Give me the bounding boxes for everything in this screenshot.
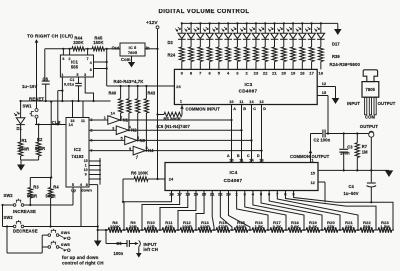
- buffer N3 of IC6 7407: [125, 136, 137, 145]
- wire LED supply rail: [182, 22, 338, 24]
- svg-text:9: 9: [181, 71, 184, 76]
- resistor R24 560R: [179, 47, 184, 62]
- svg-text:10: 10: [229, 158, 233, 162]
- svg-text:7805: 7805: [366, 87, 376, 92]
- svg-text:C4: C4: [349, 184, 355, 189]
- IC4 pin12 stub: [318, 181, 325, 183]
- wire jack sleeve down: [370, 137, 372, 182]
- wire R44-R45: [85, 48, 92, 50]
- resistor R34 560R: [272, 47, 277, 62]
- svg-text:100R: 100R: [182, 224, 192, 229]
- svg-text:11: 11: [81, 119, 85, 123]
- svg-text:7: 7: [199, 71, 202, 76]
- svg-text:C: C: [253, 107, 256, 111]
- LED D8: [236, 22, 238, 24]
- IC3 pin 1 common input stub: [181, 105, 183, 115]
- arrow to right channel clear: [35, 39, 39, 42]
- wire IC4 pin 5 to ladder node: [261, 191, 322, 231]
- svg-text:13: 13: [259, 158, 263, 162]
- wire 555 top rail: [45, 48, 72, 50]
- svg-text:20: 20: [281, 71, 286, 76]
- resistor R20 15K: [322, 229, 324, 231]
- svg-text:330K: 330K: [73, 40, 83, 45]
- svg-text:10: 10: [229, 100, 233, 104]
- svg-text:COMMON INPUT: COMMON INPUT: [186, 107, 221, 112]
- LED D17: [320, 22, 322, 24]
- svg-text:TO RIGHT CH (CLR): TO RIGHT CH (CLR): [27, 33, 73, 38]
- svg-text:42R: 42R: [165, 224, 173, 229]
- resistor R41 4,7K: [128, 85, 130, 87]
- svg-text:13: 13: [259, 100, 263, 104]
- svg-text:OUTPUT: OUTPUT: [312, 154, 330, 159]
- svg-text:22: 22: [263, 71, 268, 76]
- svg-text:CD4067: CD4067: [224, 178, 243, 183]
- svg-text:control of right CH: control of right CH: [62, 261, 104, 266]
- svg-text:100K: 100K: [110, 224, 120, 229]
- resistor R31 560R: [244, 47, 249, 62]
- buffer N4 of IC6 7407: [133, 146, 145, 155]
- svg-text:COMMON: COMMON: [290, 154, 310, 159]
- svg-text:R1: R1: [22, 138, 28, 143]
- wire IC4 pin 16 to ladder node: [124, 191, 172, 231]
- svg-text:8,2K: 8,2K: [309, 224, 318, 229]
- svg-text:12R: 12R: [147, 224, 155, 229]
- svg-text:OUTPUT: OUTPUT: [360, 124, 379, 129]
- svg-text:14: 14: [249, 158, 254, 162]
- wire 555 pin6 drop: [62, 49, 64, 56]
- svg-text:1u~50V: 1u~50V: [344, 191, 359, 196]
- LED D10: [255, 22, 257, 24]
- svg-text:CD4067: CD4067: [239, 89, 258, 94]
- wire C2 to output jack: [326, 133, 369, 135]
- wire bus A vertical: [231, 105, 233, 163]
- wire bus D vertical: [261, 105, 263, 163]
- counter IC2 74193 box: [66, 118, 89, 188]
- svg-text:D17: D17: [332, 41, 340, 46]
- svg-text:SW2: SW2: [4, 193, 14, 198]
- wire IC4 pin 23 to ladder node: [228, 191, 250, 231]
- switch SW5: [48, 246, 51, 249]
- svg-text:up: up: [71, 187, 77, 192]
- svg-text:1M: 1M: [362, 149, 368, 154]
- svg-text:15: 15: [84, 159, 88, 163]
- wire bus D: [146, 150, 262, 152]
- ground LED rail: [337, 23, 339, 29]
- svg-text:SW4: SW4: [61, 230, 71, 235]
- svg-text:24: 24: [176, 84, 181, 89]
- svg-text:1: 1: [104, 116, 106, 120]
- LED D9: [246, 22, 248, 24]
- LED D7: [227, 22, 229, 24]
- wire IC4 pin 19 to ladder node: [178, 191, 196, 231]
- svg-text:R4: R4: [53, 184, 59, 189]
- svg-text:R2: R2: [37, 137, 43, 142]
- wire R45 to IC5 Out: [105, 48, 120, 50]
- svg-text:D1: D1: [17, 126, 23, 131]
- wire IC4 pin 4 to ladder node: [253, 191, 304, 231]
- svg-text:RESET: RESET: [29, 97, 44, 102]
- LED D2: [181, 22, 183, 24]
- wire IC4 pin 6 to ladder node: [269, 191, 340, 231]
- resistor R11 42R: [160, 229, 162, 231]
- svg-text:3: 3: [84, 73, 86, 77]
- svg-text:D: D: [263, 107, 266, 111]
- regulator 7805 TO-220 package drawing: [363, 70, 377, 82]
- resistor R21 33K: [340, 229, 342, 231]
- resistor R23 1,5M: [376, 229, 378, 231]
- svg-text:COM: COM: [365, 115, 375, 120]
- resistor R36 560R: [291, 47, 296, 62]
- svg-text:6: 6: [62, 57, 64, 61]
- LED D13: [283, 22, 285, 24]
- svg-text:14: 14: [111, 112, 116, 116]
- svg-text:OUTPUT: OUTPUT: [378, 101, 396, 106]
- wire IC4 pin 22 to ladder node: [220, 191, 232, 231]
- svg-text:IC2: IC2: [74, 147, 81, 152]
- svg-text:for up and down: for up and down: [62, 255, 99, 260]
- label COMMON INPUT with arrow: [180, 106, 184, 109]
- jack INPUT left CH: [135, 242, 139, 245]
- resistor R10 12R: [142, 229, 144, 231]
- svg-text:In: In: [146, 45, 150, 50]
- regulator IC5 7805 box: [120, 43, 145, 56]
- svg-text:R24-R39=5600: R24-R39=5600: [330, 62, 361, 67]
- LED D14: [292, 22, 294, 24]
- LED D5: [209, 22, 211, 24]
- wire R3 R4 top bracket: [30, 177, 50, 179]
- svg-text:DECREASE: DECREASE: [13, 229, 38, 234]
- svg-text:IC4: IC4: [229, 170, 237, 175]
- svg-text:12: 12: [311, 181, 315, 185]
- wire IC4 pin 2 to ladder node: [237, 191, 268, 231]
- svg-text:R43: R43: [148, 90, 156, 95]
- svg-text:74193: 74193: [71, 154, 84, 159]
- wire bus B vertical: [241, 105, 243, 163]
- resistor R14 470R: [214, 229, 216, 231]
- svg-text:19: 19: [291, 71, 296, 76]
- LED D4: [199, 22, 201, 24]
- svg-text:15K: 15K: [327, 224, 335, 229]
- wire IC4 pin 17 to ladder node: [142, 191, 180, 231]
- wire horizontal rail y101: [21, 100, 111, 102]
- wire input riser to C5: [105, 230, 107, 244]
- svg-text:DIGITAL VOLUME CONTROL: DIGITAL VOLUME CONTROL: [159, 9, 250, 15]
- svg-text:1,5K: 1,5K: [255, 224, 264, 229]
- IC4 pin1 wire to C2: [310, 134, 312, 163]
- resistor R35 560R: [281, 47, 286, 62]
- resistor R30 560R: [235, 47, 240, 62]
- svg-text:SW1: SW1: [23, 103, 33, 108]
- svg-text:R24: R24: [168, 53, 176, 58]
- timer IC1 555 box: [60, 55, 93, 77]
- wire 555 pin7 drop: [87, 49, 89, 56]
- resistor R40 4,7K: [120, 85, 122, 87]
- svg-text:R7: R7: [362, 144, 368, 149]
- wire IC2 pin16 pin11 up to rail: [72, 101, 74, 118]
- svg-text:D2: D2: [168, 40, 174, 45]
- svg-text:14: 14: [69, 123, 74, 127]
- wire +5V rail to IC3 pin 24: [107, 85, 175, 87]
- resistor R43 4,7K: [145, 85, 147, 87]
- svg-text:56K: 56K: [363, 224, 371, 229]
- svg-text:3,3K: 3,3K: [273, 224, 282, 229]
- resistor R26 560R: [198, 47, 203, 62]
- svg-text:C2 100n: C2 100n: [314, 137, 331, 142]
- ground IC5: [131, 56, 133, 62]
- svg-text:R39: R39: [332, 54, 340, 59]
- resistor R13 220R: [196, 229, 198, 231]
- svg-text:2: 2: [69, 57, 71, 61]
- svg-text:5: 5: [76, 73, 78, 77]
- svg-text:11: 11: [239, 100, 243, 104]
- wire SW2 line: [3, 204, 14, 206]
- LED D1: [20, 101, 22, 118]
- svg-text:11: 11: [239, 158, 243, 162]
- svg-text:B: B: [243, 107, 246, 111]
- svg-text:14: 14: [249, 100, 254, 104]
- svg-text:21: 21: [272, 71, 277, 76]
- svg-text:left CH: left CH: [143, 247, 158, 252]
- svg-text:7: 7: [136, 156, 138, 160]
- svg-text:150K: 150K: [93, 40, 103, 45]
- svg-text:8: 8: [190, 71, 193, 76]
- wire bus B: [129, 129, 242, 131]
- wire SW1 to CLR line: [36, 118, 38, 124]
- svg-text:R3: R3: [33, 184, 39, 189]
- svg-text:33K: 33K: [345, 224, 353, 229]
- svg-text:220R: 220R: [200, 224, 210, 229]
- svg-text:7805: 7805: [128, 50, 138, 55]
- svg-text:5: 5: [121, 137, 123, 141]
- svg-text:Out: Out: [112, 45, 120, 50]
- svg-text:SW3: SW3: [4, 215, 14, 220]
- resistor R18 5,6K: [286, 229, 288, 231]
- resistor R12 100R: [178, 229, 180, 231]
- wire IC4 pin 18 to ladder node: [160, 191, 188, 231]
- svg-text:+12V: +12V: [146, 20, 158, 26]
- svg-text:100n: 100n: [340, 151, 350, 156]
- wire IC2 pin4 to decrease line: [80, 187, 82, 227]
- svg-text:1: 1: [61, 73, 63, 77]
- svg-text:3: 3: [236, 71, 239, 76]
- ground bottom left: [94, 241, 102, 247]
- svg-text:CLR: CLR: [52, 120, 61, 125]
- multiplexer IC4 CD4067 box: [165, 163, 318, 191]
- wire ladder start to ground line: [98, 229, 106, 231]
- resistor R29 560R: [226, 47, 231, 62]
- wire IC2 pin5 to increase line: [72, 187, 74, 205]
- wire bus C: [137, 139, 252, 141]
- svg-text:INCREASE: INCREASE: [13, 209, 36, 214]
- svg-text:555: 555: [71, 65, 79, 70]
- resistor R28 560R: [216, 47, 221, 62]
- svg-text:12: 12: [322, 82, 326, 86]
- svg-text:9: 9: [85, 173, 87, 177]
- svg-text:18: 18: [300, 71, 305, 76]
- svg-text:R5 600R: R5 600R: [164, 117, 181, 122]
- svg-text:5: 5: [218, 71, 221, 76]
- wire IC4 pin15 line: [318, 169, 389, 171]
- resistor R19 8,2K: [304, 229, 306, 231]
- svg-text:5,6K: 5,6K: [291, 224, 300, 229]
- wire IC4 pin 3 to ladder node: [245, 191, 286, 231]
- svg-text:4: 4: [227, 71, 230, 76]
- capacitor C2 100n: [322, 130, 324, 138]
- svg-text:Com: Com: [121, 57, 131, 62]
- svg-text:15: 15: [311, 172, 315, 176]
- svg-text:down: down: [81, 187, 92, 192]
- svg-text:SW5: SW5: [61, 242, 71, 247]
- svg-text:4: 4: [90, 61, 92, 65]
- resistor R32 560R: [253, 47, 258, 62]
- LED D15: [301, 22, 303, 24]
- svg-text:15: 15: [322, 91, 326, 95]
- svg-text:1: 1: [85, 164, 87, 168]
- resistor R15 820R: [232, 229, 234, 231]
- LED D11: [264, 22, 266, 24]
- wire IC4 pin 20 to ladder node: [196, 191, 204, 231]
- wire CLR line into IC2 pin 14: [35, 124, 66, 126]
- svg-text:6: 6: [208, 71, 211, 76]
- svg-text:A: A: [233, 107, 236, 111]
- wire R1 R2 bottoms: [20, 156, 22, 160]
- wire SW4 SW5 left link: [42, 234, 48, 236]
- switch SW4: [48, 234, 51, 237]
- svg-text:24: 24: [169, 177, 174, 182]
- svg-text:17: 17: [309, 71, 314, 76]
- resistor R8 100K: [106, 229, 108, 231]
- wire bus A: [120, 119, 231, 121]
- svg-text:7: 7: [87, 57, 89, 61]
- resistor R37 560R: [300, 47, 305, 62]
- wire IC4 pin 21 to ladder node: [212, 191, 214, 231]
- wire 555 pins 4 8 to +5V line: [94, 61, 107, 63]
- wire 555 pin1 to gnd rail: [61, 77, 63, 101]
- svg-text:9: 9: [129, 147, 131, 151]
- svg-text:8: 8: [90, 68, 92, 72]
- buffer N1 of IC6 7407: [108, 116, 120, 125]
- label COMMON OUTPUT with arrow: [309, 150, 313, 153]
- svg-text:1u~16V: 1u~16V: [22, 84, 37, 89]
- svg-text:2: 2: [246, 71, 249, 76]
- svg-text:470R: 470R: [218, 224, 228, 229]
- resistor R5 600R: [164, 112, 182, 117]
- resistor R9 10R: [124, 229, 126, 231]
- svg-text:23: 23: [254, 71, 259, 76]
- resistor R39 560R: [318, 47, 323, 62]
- resistor R38 560R: [309, 47, 314, 62]
- buffer N2 of IC6 7407: [116, 126, 128, 135]
- svg-text:IC6 (N1-N4)7407: IC6 (N1-N4)7407: [157, 124, 191, 129]
- svg-text:10R: 10R: [129, 224, 137, 229]
- resistor R17 3,3K: [268, 229, 270, 231]
- ground below R1 R2: [20, 160, 22, 165]
- resistor R27 560R: [207, 47, 212, 62]
- svg-text:0,01u: 0,01u: [64, 82, 75, 86]
- wire SW2-SW3 left link: [2, 205, 4, 227]
- svg-text:1: 1: [180, 98, 183, 103]
- wire bus C vertical: [251, 105, 253, 163]
- svg-text:1,5M: 1,5M: [380, 224, 390, 229]
- wire +12V to IC5 In: [157, 29, 159, 49]
- capacitor C3 100n: [343, 134, 345, 149]
- svg-text:IC3: IC3: [244, 82, 252, 87]
- LED D6: [218, 22, 220, 24]
- svg-text:820R: 820R: [236, 224, 246, 229]
- wire 555 pin3 down: [85, 77, 93, 101]
- wire IC4 pin 8 to ladder node: [285, 191, 376, 231]
- IC2 tied pins stubs: [99, 158, 101, 185]
- resistor R16 1,5K: [250, 229, 252, 231]
- wire SW3 line: [3, 226, 14, 228]
- multiplexer IC3 CD4067 box: [174, 69, 317, 104]
- wire vertical from rail to R3 R4: [50, 102, 52, 178]
- svg-text:C3: C3: [347, 144, 353, 149]
- wire IC4 pin 9 to ladder node: [294, 191, 393, 231]
- svg-text:INPUT: INPUT: [347, 101, 360, 106]
- svg-text:R40: R40: [109, 90, 117, 95]
- svg-text:R6 100K: R6 100K: [131, 170, 148, 175]
- LED D12: [273, 22, 275, 24]
- wire CLR arrow to SW1: [36, 42, 38, 109]
- wire IC2 gnd pin to bottom ground: [89, 184, 98, 186]
- wire 555 pin2 drop: [69, 49, 71, 56]
- svg-text:10: 10: [84, 168, 88, 172]
- svg-text:16: 16: [319, 71, 324, 76]
- wire R5 to +12V vertical: [157, 49, 159, 179]
- resistor R33 560R: [263, 47, 268, 62]
- svg-text:R40-R43=4,7K: R40-R43=4,7K: [114, 79, 145, 84]
- wire IC4 pin 7 to ladder node: [277, 191, 358, 231]
- ground right: [385, 170, 393, 177]
- svg-text:3: 3: [112, 126, 114, 130]
- LED D3: [190, 22, 192, 24]
- LED D16: [310, 22, 312, 24]
- resistor R25 560R: [189, 47, 194, 62]
- svg-text:100n: 100n: [114, 251, 124, 256]
- resistor R42 4,7K: [137, 85, 139, 87]
- resistor R22 56K: [358, 229, 360, 231]
